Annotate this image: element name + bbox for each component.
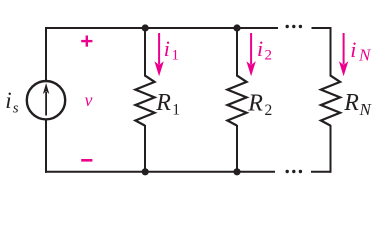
svg-text:2: 2 — [265, 102, 273, 119]
wire branch RN top lead — [330, 27, 332, 77]
wire branch R1 bottom lead — [144, 125, 146, 173]
wire branch RN bottom lead — [330, 125, 332, 173]
svg-text:1: 1 — [172, 48, 180, 64]
current arrow i2 — [246, 33, 255, 76]
svg-text:i: i — [164, 36, 170, 61]
svg-text:R: R — [247, 90, 263, 116]
current source is (circle) — [27, 81, 65, 119]
svg-text:N: N — [358, 45, 372, 64]
wire branch R2 top lead — [236, 28, 238, 77]
wire bottom rail (right segment to corner) — [311, 171, 331, 173]
junction dot bottom R1 — [142, 168, 149, 175]
wire top rail (left segment) — [45, 27, 278, 29]
resistor RN — [321, 76, 340, 126]
minus sign — [81, 159, 92, 162]
svg-text:i: i — [257, 36, 263, 61]
wire left rail upper — [45, 27, 47, 81]
junction dot top R2 — [233, 24, 240, 31]
svg-text:N: N — [359, 100, 373, 119]
current arrow i1 — [154, 33, 163, 76]
resistor R1 — [135, 76, 154, 126]
wire top rail (right segment to corner) — [312, 27, 331, 29]
junction dot bottom R2 — [233, 168, 240, 175]
ellipsis bottom — [286, 170, 303, 173]
current source arrow — [43, 83, 49, 116]
svg-text:R: R — [155, 90, 171, 116]
svg-text:2: 2 — [265, 48, 273, 64]
svg-text:1: 1 — [172, 102, 180, 119]
plus sign — [81, 36, 92, 47]
junction dot top R1 — [142, 24, 149, 31]
svg-text:i: i — [350, 37, 356, 62]
svg-text:R: R — [343, 90, 359, 116]
wire bottom rail (left segment) — [45, 171, 275, 173]
ellipsis top — [286, 25, 303, 28]
resistor R2 — [227, 76, 246, 126]
wire branch R1 top lead — [144, 28, 146, 77]
svg-text:v: v — [85, 90, 93, 110]
current arrow iN — [339, 33, 348, 76]
svg-text:i: i — [5, 88, 11, 113]
wire branch R2 bottom lead — [236, 125, 238, 173]
wire left rail lower — [45, 120, 47, 173]
svg-text:s: s — [13, 101, 19, 117]
